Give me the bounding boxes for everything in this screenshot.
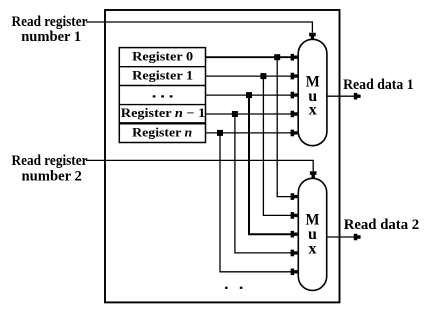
- wire mux U2 output Read data 2: [327, 236, 355, 238]
- wire mux U1 output Read data 1: [327, 95, 355, 97]
- arrowhead tap reg n into mux U2: [291, 269, 298, 276]
- wire tap dots-row down to mux U2 input 3 (thick): [249, 95, 292, 234]
- svg-text:number 1: number 1: [21, 29, 81, 45]
- svg-text:x: x: [309, 241, 317, 258]
- svg-text:Register 0: Register 0: [132, 50, 193, 64]
- arrowhead reg n-1 into mux U1: [291, 111, 298, 118]
- mux U2 label: [306, 212, 320, 258]
- separator row 1/dots: [119, 85, 205, 87]
- junction dots-row tap: [246, 92, 252, 98]
- svg-text:Read register: Read register: [12, 153, 88, 169]
- wire register n-1 to mux U1: [206, 113, 292, 115]
- wire tap reg0 down to mux U2 input 1: [277, 57, 291, 196]
- ellipsis dots in register stack: [153, 95, 173, 97]
- separator dots/n-1: [119, 104, 205, 106]
- wire tap reg n-1 down to mux U2 input 4: [235, 114, 292, 253]
- wire dots-row to mux U1: [206, 94, 292, 96]
- wire register n to mux U1: [206, 132, 292, 134]
- svg-text:number 2: number 2: [22, 169, 82, 185]
- arrowhead into mux U2 top: [310, 171, 317, 178]
- arrowhead Read data 1: [354, 93, 361, 100]
- separator row 0/1: [119, 66, 205, 68]
- junction reg n-1 tap: [232, 111, 238, 117]
- wire tap reg1 down to mux U2 input 2: [263, 76, 291, 215]
- arrowhead Read data 2: [354, 234, 361, 241]
- arrowhead reg1 into mux U1: [291, 73, 298, 80]
- arrowhead tap reg1 into mux U2: [291, 212, 298, 219]
- continuation dots bottom: [225, 287, 242, 289]
- junction reg n tap: [217, 130, 223, 136]
- svg-text:Register n − 1: Register n − 1: [121, 106, 206, 120]
- svg-text:Read data 2: Read data 2: [344, 217, 420, 233]
- wire read register number 2: [86, 160, 313, 171]
- arrowhead into mux U1 top: [309, 33, 316, 40]
- separator n-1/n (thick): [119, 122, 205, 124]
- junction reg0 tap: [274, 54, 280, 60]
- outer register-file box: [105, 10, 340, 302]
- arrowhead reg n into mux U1: [291, 130, 298, 137]
- arrowhead dots-row into mux U1: [291, 92, 298, 99]
- wire register 1 to mux U1: [206, 75, 292, 77]
- svg-text:Read register: Read register: [12, 14, 88, 30]
- arrowhead tap dots-row into mux U2: [291, 231, 298, 238]
- mux U1 body: [298, 39, 327, 145]
- svg-text:Register n: Register n: [132, 126, 192, 140]
- svg-text:x: x: [309, 102, 317, 119]
- register file stack box: [119, 48, 205, 143]
- mux U1 label: [306, 73, 320, 118]
- arrowhead reg0 into mux U1: [291, 54, 298, 61]
- wire read register number 1: [86, 22, 312, 33]
- wire register 0 to mux U1 (thick): [206, 56, 292, 58]
- arrowhead tap reg n-1 into mux U2: [291, 250, 298, 257]
- svg-text:Register 1: Register 1: [132, 69, 193, 83]
- mux U2 body: [298, 178, 326, 290]
- arrowhead tap reg0 into mux U2: [291, 193, 298, 200]
- svg-text:Read data 1: Read data 1: [343, 77, 414, 93]
- junction reg1 tap: [260, 73, 266, 79]
- wire tap reg n down to mux U2 input 5: [220, 133, 292, 272]
